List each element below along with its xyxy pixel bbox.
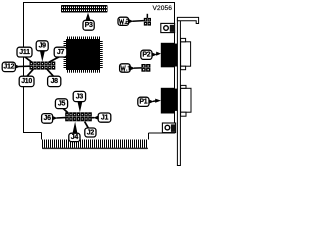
IC U1 (QFP chip) (64, 37, 103, 73)
label J5 (55, 99, 67, 109)
svg-text:J8: J8 (51, 78, 59, 85)
metal bracket strip (177, 19, 180, 165)
label J11 (17, 47, 32, 57)
svg-text:J12: J12 (3, 64, 14, 71)
svg-text:P1: P1 (139, 99, 147, 106)
leader P3 (85, 13, 90, 21)
svg-text:J3: J3 (76, 93, 84, 100)
jumper pin block J1-J6 (65, 112, 92, 121)
bracket top tab (177, 17, 198, 23)
svg-text:J11: J11 (19, 49, 30, 56)
svg-text:J4: J4 (71, 134, 79, 141)
svg-text:J2: J2 (87, 129, 95, 136)
connector P2 (black body) (161, 43, 175, 68)
leader J5 (63, 108, 68, 112)
leader J6 (52, 116, 65, 120)
label P1 (138, 97, 149, 106)
leader J2 (85, 122, 89, 129)
label J1 (98, 113, 111, 122)
leader P1 (149, 99, 161, 104)
label W.2 (118, 17, 129, 25)
leader W2 (128, 19, 144, 23)
svg-text:P3: P3 (85, 22, 93, 29)
label J3 (73, 91, 85, 101)
label P3 (83, 20, 94, 30)
svg-text:J10: J10 (21, 78, 32, 85)
leader J12 (15, 64, 30, 68)
leader J3 (77, 101, 82, 112)
label J10 (19, 76, 34, 86)
label J12 (2, 62, 15, 71)
bracket ear with screw hole (bottom) (162, 123, 175, 133)
leader J1 (92, 116, 99, 120)
leader J11 (24, 57, 32, 63)
DE-9 shell for P1 (181, 85, 191, 116)
label J2 (85, 128, 96, 137)
PCB card outline (24, 3, 175, 140)
DE-9 shell for P2 (181, 38, 191, 69)
leader P2 (152, 52, 161, 57)
leader W1 (130, 66, 142, 70)
bracket ear with screw hole (top) (161, 23, 175, 32)
label J9 (36, 41, 48, 51)
svg-text:J5: J5 (58, 101, 66, 108)
svg-text:P2: P2 (142, 52, 150, 59)
label J7 (54, 47, 67, 57)
svg-text:J9: J9 (39, 43, 47, 50)
svg-text:J1: J1 (101, 114, 109, 121)
connector P3 pin header (61, 5, 108, 13)
label P2 (141, 50, 152, 59)
connector P1 (black body) (161, 88, 175, 114)
label J6 (42, 114, 53, 124)
svg-text:V2056: V2056 (153, 5, 173, 12)
jumper pin block J7-J12 (30, 62, 56, 70)
label J4 (69, 133, 80, 141)
leader J10 (27, 69, 34, 76)
label J8 (48, 76, 61, 86)
svg-text:J6: J6 (44, 115, 52, 122)
leader J9 (40, 51, 45, 62)
leader J4 (73, 122, 78, 134)
ISA edge connector gold fingers (42, 140, 148, 150)
leader J8 (47, 69, 54, 76)
leader J7 (49, 57, 60, 63)
jumper W1 pins (141, 64, 150, 72)
jumper W2 pins (144, 14, 151, 26)
svg-text:J7: J7 (57, 49, 65, 56)
label W.1 (120, 64, 131, 72)
